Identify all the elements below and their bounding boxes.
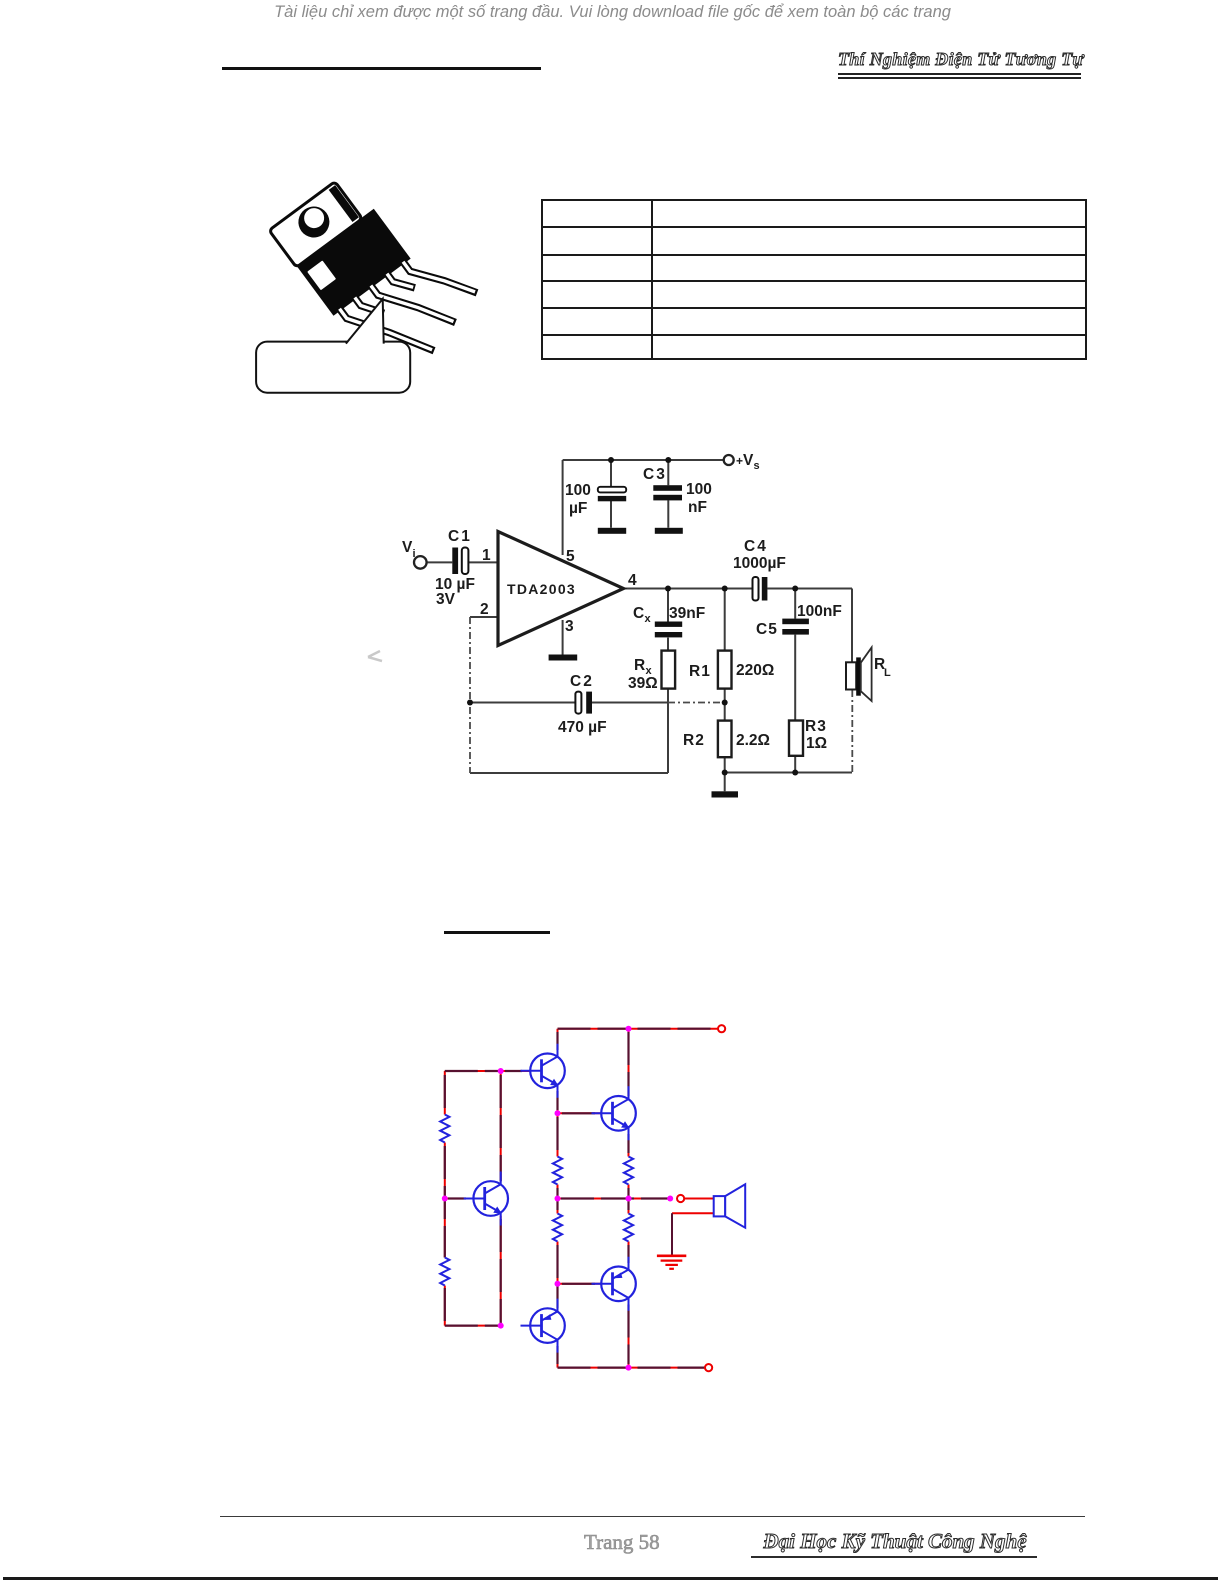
resistor R2 (2.2 ohm) [718,721,732,758]
resistor mid upper [553,1157,562,1185]
wire pin 5 [562,460,564,555]
svg-text:R3: R3 [805,718,827,735]
capacitor 100uF [598,487,626,502]
header rule left [222,67,541,70]
terminal top right [718,1025,725,1032]
wire bottom loop [470,703,668,774]
faint scan artifact [366,648,388,666]
svg-text:5: 5 [566,548,575,565]
svg-text:100nF: 100nF [797,603,842,620]
resistor left lower [440,1258,449,1286]
wires (dark maroon dashed overlay) [445,1029,722,1368]
footer page number [584,1530,674,1555]
pin table (empty 6 rows x 2 cols) [541,199,1087,360]
resistor mid lower [553,1214,562,1242]
svg-text:470 µF: 470 µF [558,719,607,736]
ground bar under C3 [655,528,683,534]
svg-text:3V: 3V [436,591,456,608]
resistor right lower [624,1214,633,1242]
svg-text:R: R [634,657,645,674]
transistor Q3 (NPN) [592,1086,636,1140]
svg-text:C3: C3 [643,466,667,483]
terminal output mid [677,1195,684,1202]
wire C3 leads [667,460,669,528]
wire pin2 dash-dot vertical [469,617,471,773]
bottom rule [3,1577,1218,1580]
svg-text:µF: µF [569,500,587,517]
resistor right upper [624,1157,633,1185]
wire input to C1 [427,561,452,563]
input terminal Vi [414,556,427,569]
wire Cx Rx branch [667,589,669,703]
wire pin 4 output [622,588,852,590]
labels [402,452,891,752]
svg-text:2: 2 [480,601,489,618]
svg-text:1Ω: 1Ω [806,735,827,752]
wire C5 R3 branch [794,589,796,773]
svg-text:L: L [884,667,891,679]
wire 100uF leads [610,460,612,528]
op-amp U1 TDA2003 [498,532,624,646]
svg-text:3: 3 [565,618,574,635]
capacitor C2 (470uF) [575,692,592,714]
footer rule [220,1516,1085,1517]
TO-220 package figure (TDA2003 Pentawatt) [250,160,500,400]
transistor Q4 (PNP) [592,1257,636,1311]
svg-text:nF: nF [688,499,707,516]
ground symbol (red) [657,1256,686,1269]
svg-text:100: 100 [565,482,591,499]
callout balloon [256,299,410,393]
svg-text:39Ω: 39Ω [628,675,658,692]
wire C1 to pin 1 [468,561,498,563]
svg-text:V: V [743,452,754,469]
svg-text:1: 1 [482,547,491,564]
wire dash-dot below speaker [851,690,853,773]
junction dots [467,457,798,776]
loudspeaker (blue) [714,1184,746,1227]
capacitor C3 (100nF) [653,485,682,500]
svg-text:C5: C5 [756,621,778,638]
wire bottom rail [725,772,852,774]
ground bar under 100uF [598,528,626,534]
svg-text:2.2Ω: 2.2Ω [736,732,770,749]
transistor Q1 (NPN) [521,1044,565,1098]
IC package plastic body [297,209,411,316]
svg-text:x: x [645,613,652,625]
resistor left upper [440,1115,449,1143]
wire speaker drop [851,589,853,663]
svg-text:V: V [402,539,413,556]
svg-text:R1: R1 [689,663,711,680]
svg-text:R2: R2 [683,732,705,749]
transistor Q5 (PNP) [521,1299,565,1353]
svg-text:C2: C2 [570,673,594,690]
capacitor C4 (1000uF) [753,577,768,601]
wire pin 3 to ground [562,620,564,655]
svg-text:+: + [736,454,743,468]
wire +Vs supply rail [563,459,724,461]
supply terminal +Vs [724,455,734,465]
IC package metal tab [269,182,362,268]
wire pin 2 [470,616,498,618]
svg-text:1000µF: 1000µF [733,555,786,572]
resistor R1 (220 ohm) [718,651,732,689]
svg-text:i: i [413,548,416,560]
wire to ground (maroon) [671,1213,673,1255]
speaker wires (red) [672,1199,714,1214]
svg-text:220Ω: 220Ω [736,662,774,679]
IC pin 4 [387,265,415,296]
IC pin 5 [403,237,477,317]
wire feedback through C2 [470,702,668,704]
transistor Q2 (NPN) [464,1172,508,1226]
wires (red underlay) [445,1029,722,1368]
svg-text:C: C [633,605,644,622]
schematic 2 : discrete push-pull power amplifier [435,1020,755,1376]
resistor R3 (1 ohm) [789,721,803,756]
IC pin 1 [340,278,435,381]
IC tab mounting hole [292,200,335,243]
svg-text:C1: C1 [448,528,472,545]
header title right [838,49,1082,70]
ground pin 3 [549,655,578,661]
top notice text [0,3,1225,22]
resistor Rx (39 ohm) [662,651,676,689]
IC pin 2 [355,289,384,321]
ground under R2 [712,791,739,797]
wire dash-dot feedback extension [668,702,725,704]
svg-text:s: s [754,460,760,472]
terminal bottom right [705,1364,712,1371]
capacitor Cx (39nF) [655,622,682,638]
section divider short line [444,931,550,934]
IC pin 3 [371,258,456,350]
junction dots (magenta) [442,1026,673,1371]
capacitor C5 (100nF) [782,619,809,635]
capacitor C1 (10uF 3V) [452,548,468,575]
svg-text:39nF: 39nF [669,605,705,622]
wire R1 R2 branch [724,589,726,792]
svg-text:4: 4 [628,572,637,589]
speaker RL [846,648,872,702]
svg-text:100: 100 [686,481,712,498]
svg-text:C4: C4 [744,538,768,555]
footer school name [750,1529,1040,1554]
schematic 1 : TDA2003 amplifier application circuit [395,448,900,804]
svg-text:TDA2003: TDA2003 [507,581,576,597]
